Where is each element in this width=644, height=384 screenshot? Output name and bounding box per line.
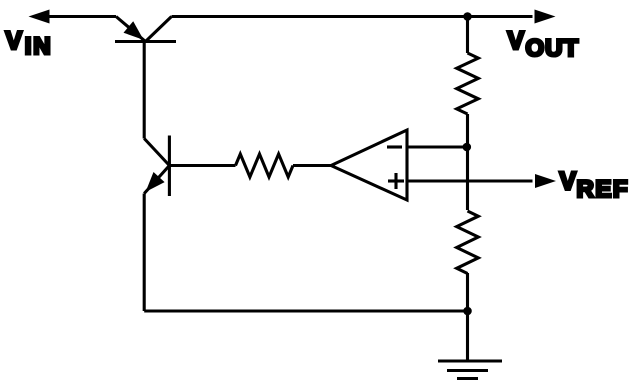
- wire: non-inverting input to V_REF: [407, 179, 533, 182]
- wire: R1 to tap node: [466, 114, 469, 147]
- resistor R2 (lower feedback divider): [457, 211, 479, 274]
- op-amp U1 inverting input marker (-): [387, 145, 402, 148]
- wire: Q2 base lead: [169, 164, 235, 167]
- node: junction dot V_OUT / divider top: [463, 12, 472, 21]
- svg-text:V: V: [6, 27, 23, 55]
- node: feedback tap junction dot: [463, 143, 472, 152]
- op-amp U1 (error amplifier, output at left apex): [331, 130, 407, 200]
- resistor R3 (Q2 base to op-amp output): [236, 154, 294, 177]
- wire: Q1 base down to Q2 collector: [143, 42, 146, 139]
- wire: R2 to ground rail: [466, 273, 469, 311]
- resistor R1 (upper feedback divider): [457, 53, 479, 114]
- transistor Q1 collector (to V_OUT rail): [146, 17, 172, 42]
- arrow to V_OUT (output terminal): [535, 10, 556, 24]
- svg-text:REF: REF: [577, 176, 630, 203]
- svg-text:V: V: [560, 168, 577, 196]
- wire: divider top segment: [466, 17, 469, 54]
- wire: top output rail: [172, 15, 533, 18]
- wire: V_IN lead: [49, 15, 116, 18]
- arrow from V_REF (reference input): [535, 174, 556, 188]
- ground symbol: [438, 361, 502, 379]
- svg-text:V: V: [508, 27, 525, 55]
- wire: bottom ground rail: [144, 309, 467, 312]
- svg-text:IN: IN: [25, 33, 53, 60]
- op-amp U1 non-inverting input marker (+): [388, 179, 404, 182]
- wire: R3 to op-amp output: [293, 164, 331, 167]
- wire: tap node down across V_REF line to R2: [466, 147, 469, 210]
- transistor Q2 (NPN driver) base bar: [168, 136, 171, 197]
- node: ground rail junction dot: [463, 307, 472, 316]
- arrow to V_IN (input terminal): [29, 10, 50, 24]
- svg-text:OUT: OUT: [526, 35, 580, 62]
- transistor Q1 (PNP pass transistor) base bar: [115, 40, 176, 43]
- wire: inverting input to divider tap: [407, 145, 467, 148]
- transistor Q2 collector (from Q1 base): [144, 139, 169, 166]
- wire: ground stem: [466, 311, 469, 361]
- transistor Q2 emitter (arrow out, to ground rail): [144, 166, 169, 194]
- wire: Q2 emitter down: [143, 194, 146, 312]
- transistor Q1 emitter (from V_IN rail, arrow into base): [116, 17, 146, 42]
